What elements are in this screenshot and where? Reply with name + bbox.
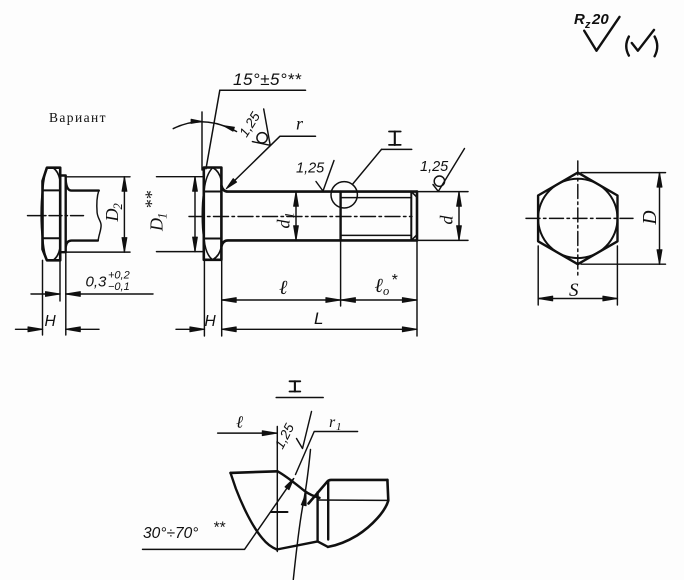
variant head top-left facet arc xyxy=(43,168,47,189)
detail view title underline xyxy=(276,397,323,399)
bearing-face extension line down xyxy=(221,246,223,336)
thread minor diameter top line xyxy=(342,197,412,199)
runout angle label 30-70 xyxy=(143,520,226,543)
variant head facet line top xyxy=(43,189,61,191)
head-left extension line down xyxy=(203,260,205,336)
variant head height extension line left xyxy=(42,260,44,335)
detail I leader line xyxy=(352,149,381,184)
bolt-end extension line down xyxy=(416,240,418,336)
variant dimension H line left part xyxy=(16,328,43,330)
svg-text:D: D xyxy=(640,210,661,225)
hex view horizontal centerline xyxy=(526,217,633,219)
variant centerline xyxy=(28,215,84,217)
svg-text:1: 1 xyxy=(283,212,297,218)
runout angle arc leader xyxy=(293,450,310,580)
svg-text:0,3: 0,3 xyxy=(86,274,108,291)
chamfer angle leader diagonal xyxy=(206,90,220,169)
main centerline xyxy=(189,216,412,218)
svg-text:30°÷70°: 30°÷70° xyxy=(143,525,198,542)
svg-text:ℓ: ℓ xyxy=(236,413,243,432)
dimension d label xyxy=(437,215,457,225)
dimension S line xyxy=(538,298,617,300)
bolt end face xyxy=(416,192,419,241)
variant fillet and shank bottom line xyxy=(66,241,98,247)
dimension D2 label xyxy=(102,203,125,222)
runout angle leader xyxy=(143,479,294,550)
shank bottom line with under-head fillet xyxy=(222,240,418,246)
d extension line bottom xyxy=(418,239,468,241)
main head bottom-right facet arc xyxy=(213,247,221,259)
hex head chamfer circle xyxy=(538,179,617,258)
dimension S extension line left xyxy=(537,246,539,305)
svg-text:o: o xyxy=(383,284,389,298)
svg-text:R: R xyxy=(574,11,585,28)
variant fillet and shank top line xyxy=(66,181,99,191)
parenthesized checkmark symbol xyxy=(626,30,657,56)
main dimension H line left part xyxy=(176,328,204,330)
detail vertical extension line xyxy=(276,427,278,552)
svg-text:1: 1 xyxy=(156,213,170,219)
svg-text:H: H xyxy=(45,313,57,330)
svg-text:−0,1: −0,1 xyxy=(108,281,130,293)
variant shank break line xyxy=(97,191,101,241)
detail I label xyxy=(389,132,401,145)
detail view title I xyxy=(290,381,301,391)
dimension D line xyxy=(659,173,661,265)
detail thread groove line A xyxy=(316,493,318,542)
svg-text:+0,2: +0,2 xyxy=(108,270,130,282)
detail minor diameter line xyxy=(318,499,389,501)
variant dimension H line right part xyxy=(66,328,99,330)
flange thickness extension line right xyxy=(65,252,67,335)
detail dimension l leader xyxy=(218,432,277,434)
svg-text:H: H xyxy=(205,313,217,330)
svg-text:z: z xyxy=(584,19,591,31)
dimension S extension line right xyxy=(616,246,618,305)
svg-text:S: S xyxy=(569,280,579,301)
dimension l line xyxy=(222,299,341,301)
main head facet line top xyxy=(204,191,222,193)
dimension D1 line xyxy=(194,177,196,252)
svg-text:1,25: 1,25 xyxy=(420,159,449,175)
svg-text:**: ** xyxy=(213,520,226,537)
svg-text:ℓ: ℓ xyxy=(279,277,288,299)
variant head middle facet arc xyxy=(41,190,42,238)
bolt end chamfer corner top xyxy=(411,192,417,198)
main head bottom-left facet arc xyxy=(204,240,212,260)
svg-text:d: d xyxy=(274,219,294,229)
detail shank surface line xyxy=(231,471,278,473)
svg-text:r: r xyxy=(329,414,336,431)
dimension D label xyxy=(640,210,661,225)
svg-text:D: D xyxy=(147,218,167,232)
dimension 0,3 +0,2 -0,1 label xyxy=(86,270,130,294)
detail blob left edge xyxy=(231,473,277,550)
svg-text:Вариант: Вариант xyxy=(49,110,107,125)
detail roughness 1,25 check xyxy=(272,412,312,452)
variant head facet line bottom xyxy=(43,237,61,239)
roughness symbol 1,25 on shank surface xyxy=(296,161,334,192)
variant head bottom-left facet arc xyxy=(43,240,47,260)
svg-text:2: 2 xyxy=(111,203,125,209)
main head top-left facet arc xyxy=(204,168,212,190)
chamfer angle extension line vertical xyxy=(201,112,203,170)
dimension D2 extension line top xyxy=(66,176,131,178)
svg-text:**: ** xyxy=(142,191,162,209)
svg-text:d: d xyxy=(437,215,457,225)
dimension d1 label xyxy=(274,212,297,228)
variant head top-right facet arc xyxy=(53,168,60,180)
thread minor diameter bottom line xyxy=(342,234,412,236)
dimension lo line xyxy=(341,299,417,301)
dimension d1 line xyxy=(295,192,297,240)
dimension D extension line bottom xyxy=(581,263,666,265)
svg-text:1: 1 xyxy=(336,421,342,433)
dimension lo label with asterisk xyxy=(375,272,399,298)
dimension D1 extension line bottom xyxy=(157,251,204,253)
hex head end view hexagon xyxy=(538,173,617,265)
shank top line with under-head fillet xyxy=(222,186,418,192)
chamfer angle leader horizontal xyxy=(220,89,306,91)
dimension D extension line top xyxy=(581,172,666,174)
main head facet line bottom xyxy=(204,238,222,240)
svg-text:15°±5°**: 15°±5°** xyxy=(233,70,302,89)
dimension 0,3 line left part xyxy=(31,293,60,295)
detail tick mark xyxy=(271,511,288,513)
detail right edge and bottom sweep xyxy=(328,480,388,547)
surface finish Rz20 general note xyxy=(574,11,620,51)
main head top-right facet arc xyxy=(213,168,221,180)
thread-start extension line down xyxy=(340,240,342,306)
dimension L line xyxy=(222,328,417,330)
variant washer flange xyxy=(60,176,65,253)
detail thread groove line B xyxy=(327,482,329,540)
main head middle facet arc xyxy=(203,192,205,239)
svg-text:20: 20 xyxy=(591,11,609,28)
roughness symbol 1,25 on head chamfer xyxy=(236,109,270,145)
svg-text:L: L xyxy=(314,309,323,328)
detail blob bottom edge xyxy=(277,541,328,549)
dimension 0,3 line right part xyxy=(66,293,153,295)
bolt end chamfer corner bottom xyxy=(411,235,417,241)
fillet radius r leader xyxy=(229,136,316,186)
dimension D1 label with asterisks xyxy=(142,191,170,232)
detail r1 label xyxy=(329,414,342,433)
chamfer angle arc xyxy=(173,122,236,132)
variant bolt head outline xyxy=(43,168,61,261)
thread start line xyxy=(339,192,341,241)
svg-text:1,25: 1,25 xyxy=(296,161,325,177)
svg-text:D: D xyxy=(102,209,122,223)
dimension d line xyxy=(458,192,460,240)
hex view vertical centerline xyxy=(577,161,579,275)
dimension D1 extension line top xyxy=(157,176,204,178)
roughness symbol 1,25 on thread surface xyxy=(420,149,465,192)
flange thickness extension line left xyxy=(59,252,61,301)
detail thread runout curve xyxy=(278,471,320,498)
detail r1 leader xyxy=(296,432,358,475)
detail I circle xyxy=(331,182,357,208)
dimension D2 extension line bottom xyxy=(66,251,131,253)
detail thread flank and crest top edge xyxy=(309,480,388,504)
dimension D2 line xyxy=(123,177,125,252)
svg-text:r: r xyxy=(296,114,304,134)
bolt end chamfer line xyxy=(410,192,412,241)
main bolt head outline xyxy=(204,168,222,260)
variant head bottom-right facet arc xyxy=(53,249,60,261)
detail I label underline xyxy=(382,148,412,150)
d extension line top xyxy=(418,191,468,193)
svg-text:*: * xyxy=(391,272,398,289)
